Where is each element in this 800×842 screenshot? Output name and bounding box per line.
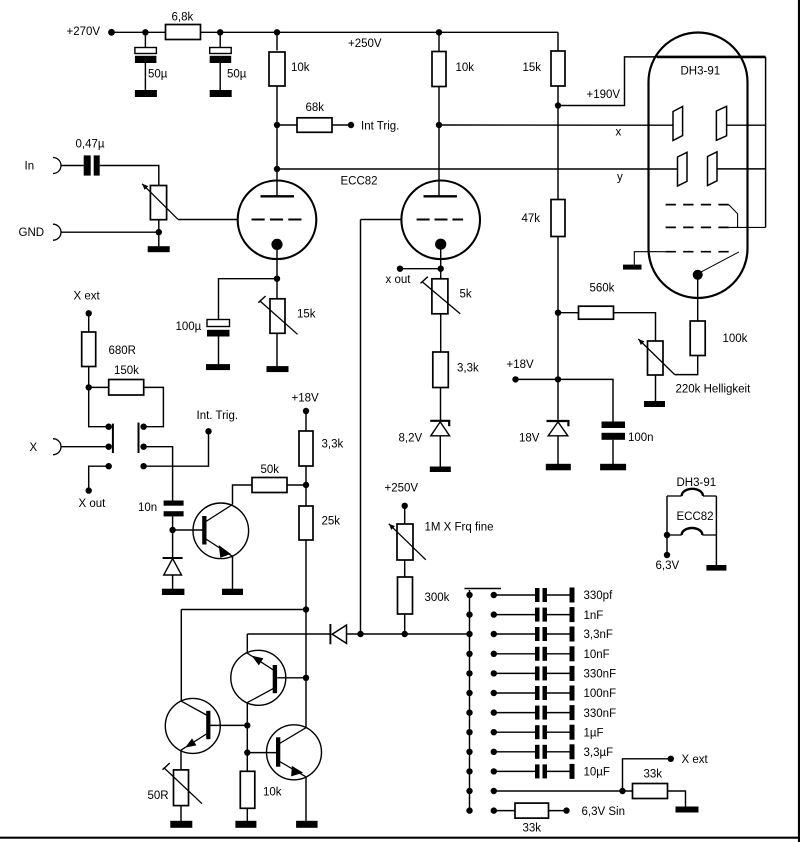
node 6,3V Sin terminal xyxy=(563,807,569,813)
svg-text:y: y xyxy=(617,172,623,184)
capacitor 1µF xyxy=(491,725,575,740)
junction bus row 8 xyxy=(466,729,472,735)
wire X ext to 680R xyxy=(88,313,90,332)
ground CRT g1 xyxy=(623,265,642,270)
wire 100k to 220k wiper xyxy=(675,356,698,375)
svg-text:+270V: +270V xyxy=(67,26,101,38)
ground below 100n xyxy=(600,464,626,471)
wire 3,3k to 8,2V zener xyxy=(440,388,442,421)
junction Q1 base node xyxy=(169,527,175,533)
svg-text:680R: 680R xyxy=(109,345,137,357)
wire 1M to 300k xyxy=(404,560,406,577)
capacitor 0,47u xyxy=(84,155,100,175)
ground below C2 xyxy=(210,90,232,97)
wire Q3 emitter to 50R xyxy=(180,750,182,770)
wire 15k pot to ground xyxy=(276,333,278,366)
junction bus row 7 xyxy=(466,709,472,715)
junction 47k line / 560k xyxy=(555,310,561,316)
junction rail/C1 xyxy=(142,29,148,35)
wire Q2 emitter to diode xyxy=(247,633,330,635)
node +18V right terminal xyxy=(512,376,518,382)
ground below Q4 xyxy=(296,821,318,828)
wire 47k down to 18V zener xyxy=(557,237,559,420)
svg-text:47k: 47k xyxy=(522,213,541,225)
capacitor 10nF xyxy=(491,646,575,661)
wire X ext branch xyxy=(623,759,671,791)
junction pot bottom xyxy=(156,229,162,235)
resistor 10k anode tube1 xyxy=(269,52,285,86)
wire CRT cathode down to 100k xyxy=(697,279,699,321)
zener diode 18V xyxy=(547,421,570,436)
CRT y plate left xyxy=(678,152,688,186)
junction V2 cathode node xyxy=(438,266,444,272)
wire x out node to 5k xyxy=(440,269,442,279)
capacitor 100u xyxy=(207,320,230,337)
wire 300k to oscillator line xyxy=(404,614,406,634)
svg-text:150k: 150k xyxy=(114,365,139,377)
svg-text:33k: 33k xyxy=(644,769,663,781)
node x out terminal xyxy=(397,266,403,272)
diode D2 xyxy=(330,624,346,644)
connector In xyxy=(53,158,61,174)
wire +190V branch to CRT anode xyxy=(558,57,659,106)
svg-text:Int. Trig.: Int. Trig. xyxy=(197,410,239,422)
node 6,3V terminal xyxy=(664,552,670,558)
junction 300k line xyxy=(402,631,408,637)
junction bus row 10 xyxy=(466,768,472,774)
potentiometer 220k wiper arrow xyxy=(638,339,674,375)
wire switch to Int. Trig. terminal xyxy=(144,431,209,466)
wire g2 row2 to right bus xyxy=(729,226,766,228)
node +270V terminal xyxy=(108,29,115,36)
wire feedback vertical xyxy=(360,220,362,635)
resistor 25k xyxy=(299,506,313,540)
resistor 10k anode tube2 xyxy=(432,52,446,87)
svg-text:+250V: +250V xyxy=(385,483,419,495)
svg-text:100µ: 100µ xyxy=(176,321,202,333)
svg-text:100k: 100k xyxy=(723,333,748,345)
wire cathode to filament xyxy=(700,252,739,273)
svg-text:+250V: +250V xyxy=(348,38,382,50)
wire 100u to ground xyxy=(218,337,220,365)
wire Q1 emitter to ground xyxy=(232,556,234,589)
svg-text:50µ: 50µ xyxy=(227,69,247,81)
border right xyxy=(798,0,800,842)
wire rail to 15k xyxy=(557,32,559,51)
ground below 220k xyxy=(644,401,665,407)
capacitor 3,3µF xyxy=(491,744,575,759)
ground below C1 xyxy=(135,90,157,97)
junction bus row 2 xyxy=(466,611,472,617)
svg-text:50µ: 50µ xyxy=(148,69,168,81)
resistor 68k xyxy=(297,118,332,133)
svg-text:X out: X out xyxy=(79,498,107,510)
svg-text:10µF: 10µF xyxy=(584,767,610,779)
wire 68k left xyxy=(277,124,297,126)
wire 8,2V to ground xyxy=(439,436,441,467)
svg-text:10nF: 10nF xyxy=(584,649,610,661)
resistor 33k right xyxy=(633,784,668,799)
CRT grid g1 dashes row3 xyxy=(666,251,729,253)
svg-text:68k: 68k xyxy=(306,102,325,114)
resistor 33k bottom xyxy=(515,803,549,818)
wire 560k to 220k pot xyxy=(614,313,656,341)
ground below 18V zener xyxy=(546,464,571,471)
svg-text:18V: 18V xyxy=(519,433,540,445)
svg-text:3,3k: 3,3k xyxy=(457,363,479,375)
capacitor 3,3nF xyxy=(491,627,575,642)
triode V1 cathode dot xyxy=(271,239,282,250)
node +250V mid terminal xyxy=(402,503,408,509)
CRT anode plate bar xyxy=(657,56,766,59)
junction bus row 4 xyxy=(466,651,472,657)
wire C1 branch xyxy=(144,32,146,48)
border bottom xyxy=(0,837,800,839)
CRT x plate left xyxy=(673,107,683,141)
wire 10k bottom top xyxy=(246,753,248,772)
wire switch to X out xyxy=(89,466,109,490)
svg-text:ECC82: ECC82 xyxy=(677,511,714,523)
junction bus row 1 xyxy=(466,592,472,598)
transistor Q3 xyxy=(165,698,220,753)
wire y deflection from tube1 anode to y plates xyxy=(277,168,678,170)
wire wiper to V1 grid xyxy=(178,219,238,221)
junction 15k / +190V branch xyxy=(555,102,561,108)
switch contact left bottom xyxy=(106,463,112,469)
wire 6,3V terminal xyxy=(666,535,668,555)
wire x out branch xyxy=(400,268,441,270)
junction 25k line / Q3 collector wire xyxy=(303,606,309,612)
wire 68k to Int Trig terminal xyxy=(332,124,351,126)
wire 10n to Q1 base node xyxy=(172,516,174,558)
resistor 680R xyxy=(82,332,96,367)
potentiometer 15k cathode xyxy=(270,299,285,334)
junction tube1 anode / 68k xyxy=(274,122,280,128)
wire heater left rail xyxy=(666,496,668,535)
junction V1 cathode node xyxy=(274,276,280,282)
wire Q4 emitter to ground xyxy=(305,777,307,821)
svg-text:15k: 15k xyxy=(523,62,542,74)
connector X xyxy=(53,439,61,455)
switch contact left mid xyxy=(106,444,112,450)
wire 150k left xyxy=(89,386,109,388)
wire cathode to 15k pot xyxy=(276,279,278,299)
svg-text:1M X Frq fine: 1M X Frq fine xyxy=(425,522,494,534)
wire 220k to ground xyxy=(655,375,657,401)
wire C1 to ground xyxy=(144,63,146,90)
resistor 3,3k cathode V2 xyxy=(433,352,449,388)
wire 5k to 3,3k xyxy=(440,314,442,352)
wire +250V to 1M pot xyxy=(404,506,406,524)
capacitor 50u #1 xyxy=(135,48,157,64)
triode V2 ECC82 envelope xyxy=(401,181,480,260)
switch contact right bottom xyxy=(140,463,146,469)
ground below 50R xyxy=(170,821,192,828)
junction 33k / X ext branch xyxy=(619,788,625,794)
wire rail to 10k tube1 xyxy=(276,32,278,50)
capacitor 100n xyxy=(602,422,626,440)
junction 25k line / Q2 base xyxy=(303,675,309,681)
svg-text:x: x xyxy=(616,127,622,139)
wire Q3 collector vertical xyxy=(180,610,182,702)
wire 15k to 47k xyxy=(557,86,559,200)
resistor 560k xyxy=(579,306,614,319)
CRT y plate right xyxy=(708,152,718,186)
svg-text:6,3V: 6,3V xyxy=(656,560,680,572)
svg-text:10k: 10k xyxy=(263,787,282,799)
wire 33k bottom to terminal xyxy=(549,810,567,812)
wire +270V rail to 15k top xyxy=(112,31,559,33)
junction rail/10k tube2 xyxy=(436,29,442,35)
ground below D1 xyxy=(162,589,185,595)
heater filament DH3-91 xyxy=(667,489,716,496)
wire y plate right to bus xyxy=(717,168,766,170)
wire cathode to 100u xyxy=(219,279,278,320)
wire Q2 collector vertical xyxy=(246,702,248,752)
capacitor 1nF xyxy=(491,607,575,622)
junction 47k line / +18V wire xyxy=(555,376,561,382)
junction bus row 6 xyxy=(466,690,472,696)
node X ext terminal xyxy=(86,310,92,316)
wire 10k bottom to ground xyxy=(246,808,248,821)
wire 25k down to Q4 collector xyxy=(305,540,307,728)
svg-text:8,2V: 8,2V xyxy=(399,433,423,445)
resistor 10k bottom xyxy=(240,771,255,808)
resistor 15k xyxy=(551,51,565,86)
svg-text:Int Trig.: Int Trig. xyxy=(361,121,399,133)
potentiometer 1M wiper arrow xyxy=(389,524,426,560)
svg-text:330pf: 330pf xyxy=(584,590,614,602)
svg-text:10k: 10k xyxy=(456,62,475,74)
wire Q2 emitter vertical xyxy=(246,634,248,653)
svg-text:6,3V Sin: 6,3V Sin xyxy=(582,806,625,818)
svg-text:15k: 15k xyxy=(297,309,316,321)
capacitor 330nF xyxy=(491,666,575,681)
wire g2 row1 link xyxy=(729,205,738,228)
wire 47k line to 560k xyxy=(558,312,579,314)
svg-text:GND: GND xyxy=(19,227,45,239)
wire 0,47u to pot xyxy=(100,166,159,186)
svg-text:1µF: 1µF xyxy=(584,727,604,739)
transistor Q4 xyxy=(267,725,322,780)
junction 680R/150k xyxy=(86,384,92,390)
wire +18V to 3,3k xyxy=(305,411,307,431)
wire Q3 collector horizontal xyxy=(181,609,306,611)
svg-text:50R: 50R xyxy=(148,790,169,802)
wire 3,3k to 25k xyxy=(305,466,307,506)
triode V1 anode plate xyxy=(261,195,295,197)
CRT cathode dot xyxy=(693,270,703,280)
wire Q4 base xyxy=(247,752,276,754)
wire V2 grid to feedback line xyxy=(361,219,402,221)
connector GND xyxy=(53,224,61,240)
svg-text:3,3k: 3,3k xyxy=(322,439,344,451)
wire 680R to switch xyxy=(89,367,109,427)
transistor Q1 xyxy=(193,503,249,559)
svg-text:25k: 25k xyxy=(322,516,341,528)
svg-text:3,3nF: 3,3nF xyxy=(584,629,613,641)
CRT grid g2 dashes row1 xyxy=(666,204,729,206)
wire capacitor bank top bar xyxy=(465,588,502,590)
wire switch to 10n xyxy=(144,447,173,501)
svg-text:560k: 560k xyxy=(590,283,615,295)
resistor 50k xyxy=(252,478,287,493)
svg-text:X ext: X ext xyxy=(682,754,709,766)
wire X to switch xyxy=(61,446,109,448)
svg-text:ECC82: ECC82 xyxy=(341,176,378,188)
wire Q3 base xyxy=(209,724,248,726)
wire C2 to ground xyxy=(219,63,221,90)
node +18V left terminal xyxy=(303,408,309,414)
svg-text:X ext: X ext xyxy=(74,291,101,303)
wire diode to capacitor bus xyxy=(347,633,470,635)
ground below 100u xyxy=(206,364,230,370)
CRT grid g2 dashes row2 xyxy=(666,226,729,228)
potentiometer 220k Helligkeit xyxy=(648,341,664,375)
junction 50k/+18V column xyxy=(303,482,309,488)
wire Q2 base xyxy=(277,677,306,679)
junction Q3 base node / Q4 base xyxy=(244,749,250,755)
wire pot bottom to ground xyxy=(158,219,160,247)
wire 10k to tube1 anode xyxy=(276,86,278,196)
junction heater 6,3V xyxy=(664,532,670,538)
wire Q1 collector to 50k xyxy=(233,485,253,505)
svg-text:100nF: 100nF xyxy=(584,688,617,700)
switch contact left top xyxy=(106,424,112,430)
transistor Q2 xyxy=(231,650,286,705)
svg-text:33k: 33k xyxy=(523,823,542,835)
svg-text:10k: 10k xyxy=(291,62,310,74)
svg-text:330nF: 330nF xyxy=(584,708,617,720)
svg-text:5k: 5k xyxy=(460,289,472,301)
wire 18V zener to ground xyxy=(557,436,559,464)
svg-text:3,3µF: 3,3µF xyxy=(584,747,614,759)
potentiometer 15k wiper arrow xyxy=(258,296,297,334)
node Int. Trig. 2 terminal xyxy=(205,428,211,434)
svg-text:100n: 100n xyxy=(628,432,654,444)
potentiometer input attenuator xyxy=(150,186,166,220)
wire D1 to ground xyxy=(172,575,174,589)
svg-text:10n: 10n xyxy=(138,502,157,514)
resistor 6,8k xyxy=(166,25,201,40)
wire C2 branch xyxy=(219,32,221,48)
wire 33k to ground xyxy=(668,791,686,807)
wire CRT right bus xyxy=(765,57,767,228)
junction rail/C2 xyxy=(217,29,223,35)
junction bus row 12 xyxy=(466,807,472,813)
switch contact right top xyxy=(140,424,146,430)
junction bus row 11 xyxy=(466,788,472,794)
triode V2 grid dashes xyxy=(417,219,464,221)
junction rail/10k tube1 xyxy=(274,29,280,35)
wire Q1 base xyxy=(173,529,203,531)
zener diode 8,2V xyxy=(430,421,450,436)
potentiometer input wiper arrow xyxy=(142,184,178,219)
capacitor 10µF xyxy=(491,764,575,779)
svg-text:+18V: +18V xyxy=(507,359,535,371)
junction bus row 9 xyxy=(466,749,472,755)
wire 10k to tube2 anode xyxy=(438,87,440,197)
triode V2 cathode dot xyxy=(435,239,446,250)
wire 33k row xyxy=(491,788,633,794)
wire V2 cathode down xyxy=(440,248,442,268)
wire V1 cathode down xyxy=(276,249,278,279)
svg-text:X: X xyxy=(30,442,38,454)
svg-text:1nF: 1nF xyxy=(584,610,604,622)
capacitor 330nF xyxy=(491,705,575,720)
CRT tube DH3-91 envelope xyxy=(649,33,748,299)
ground below 8,2V zener xyxy=(430,467,451,473)
svg-text:+190V: +190V xyxy=(587,89,621,101)
junction Q2 collector / Q3 base xyxy=(244,722,250,728)
potentiometer 1M X Frq fine xyxy=(397,524,413,560)
capacitor 100nF xyxy=(491,686,575,701)
wire g1 to ground xyxy=(634,252,665,265)
node X out terminal xyxy=(86,487,92,493)
resistor 3,3k timer xyxy=(299,431,313,466)
switch bar right xyxy=(138,423,140,453)
capacitor 330pf xyxy=(491,588,575,603)
svg-text:In: In xyxy=(25,161,35,173)
wire 50k to +18V line xyxy=(287,484,306,486)
wire In to C 0,47u xyxy=(61,165,84,167)
resistor 47k xyxy=(551,200,565,237)
svg-text:220k Helligkeit: 220k Helligkeit xyxy=(676,384,752,396)
wire x deflection from tube2 anode to x plates xyxy=(439,124,673,126)
svg-text:50k: 50k xyxy=(261,464,280,476)
potentiometer 50R wiper arrow xyxy=(163,763,203,804)
triode V1 grid dashes xyxy=(252,219,302,221)
svg-text:0,47µ: 0,47µ xyxy=(76,139,105,151)
node X ext bottom terminal xyxy=(668,756,674,762)
potentiometer 50R xyxy=(174,770,189,806)
svg-text:DH3-91: DH3-91 xyxy=(681,66,721,78)
wire 150k right to switch xyxy=(144,387,164,426)
junction tube1 anode / y wire xyxy=(274,166,280,172)
potentiometer 5k wiper arrow xyxy=(421,277,461,314)
ground below Q1 xyxy=(222,589,243,595)
junction bus row 3 xyxy=(466,631,472,637)
svg-text:DH3-91: DH3-91 xyxy=(677,477,717,489)
switch bar left xyxy=(112,424,114,453)
capacitor 50u #2 xyxy=(210,48,232,64)
CRT x plate right xyxy=(716,106,726,140)
wire rail to 10k tube2 xyxy=(438,32,440,51)
ground below 10k bottom xyxy=(235,821,256,828)
heater filament ECC82 xyxy=(667,528,716,535)
node Int Trig terminal xyxy=(348,122,354,128)
resistor 300k xyxy=(398,577,413,614)
triode V1 ECC82 envelope xyxy=(238,181,317,260)
svg-text:x out: x out xyxy=(386,274,412,286)
resistor 150k xyxy=(109,380,144,396)
svg-text:300k: 300k xyxy=(425,592,450,604)
diode zener D1 xyxy=(163,558,183,575)
junction tube2 anode / x wire xyxy=(436,122,442,128)
wire 50R to ground xyxy=(180,806,182,821)
potentiometer 5k xyxy=(432,279,448,314)
ground below 33k right xyxy=(676,807,699,813)
ground heater xyxy=(706,565,726,571)
wire heater right to ground xyxy=(715,496,717,565)
svg-text:330nF: 330nF xyxy=(584,669,617,681)
wire 100n to ground xyxy=(612,440,614,464)
junction feedback line xyxy=(357,631,363,637)
switch contact right mid xyxy=(140,444,146,450)
wire GND to pot bottom xyxy=(61,231,159,233)
capacitor 10n xyxy=(164,501,184,517)
resistor 100k xyxy=(690,321,705,356)
